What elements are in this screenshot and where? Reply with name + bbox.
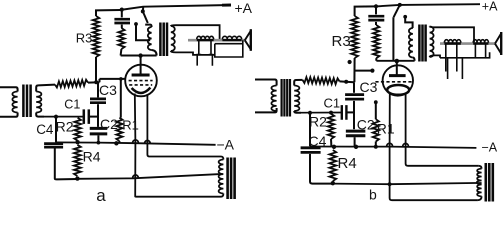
wire switch to primary top	[145, 25, 151, 27]
wire hop a right-leg over bus	[144, 140, 150, 143]
switch pivot	[141, 9, 145, 13]
speaker coil 1 legs b	[446, 44, 463, 79]
wire plate node	[121, 55, 157, 57]
output transformer T2a primary bottom lead (wire)	[152, 50, 157, 56]
label R2	[56, 119, 74, 135]
svg-text:−A: −A	[482, 141, 498, 155]
wire top rail (+A rail) b	[376, 4, 480, 6]
terminal -A label b	[482, 141, 498, 155]
wire bus to -A b	[390, 147, 477, 148]
wire contact down	[136, 24, 150, 40]
wire R1 lead b	[375, 102, 377, 119]
triode V1b plate	[389, 74, 406, 77]
capacitor C4	[44, 144, 63, 148]
wire hop a left-leg over heater ground	[133, 175, 139, 178]
label C2	[100, 116, 118, 132]
node heater ground junction b	[388, 182, 392, 186]
wire R1 bottom b	[375, 142, 377, 147]
switch blade b	[394, 5, 400, 17]
output transformer T2b core	[419, 25, 425, 62]
input transformer T1b primary lead bottom (wire)	[255, 108, 277, 112]
label R1	[122, 118, 139, 133]
filament transformer T3a top corner (wire)	[221, 157, 223, 160]
speaker cone mouth	[250, 29, 252, 50]
switch contact b	[403, 15, 407, 19]
wire hop b right-leg over bus	[403, 143, 409, 146]
switch pivot b	[398, 3, 402, 7]
wire C4 bottom lead	[55, 148, 78, 179]
label C4 (b)	[309, 133, 327, 149]
svg-text:R1: R1	[377, 121, 395, 137]
speaker coil 2	[222, 36, 241, 40]
node C4 branch	[54, 115, 58, 119]
speaker coil 2 legs b	[475, 44, 485, 58]
label C1	[64, 97, 80, 111]
node R4 bottom	[75, 176, 79, 180]
wire hop b left-leg over bus	[387, 143, 393, 146]
label R3	[76, 31, 93, 46]
wire chain C3 to C1 b	[353, 101, 355, 129]
label C1 (b)	[324, 96, 341, 111]
filament transformer T3b bottom corner (wire)	[478, 196, 482, 200]
triode V1a envelope	[125, 65, 157, 97]
speaker armature bar	[188, 39, 245, 42]
svg-text:C3: C3	[99, 82, 117, 98]
svg-text:a: a	[96, 186, 106, 204]
output transformer T2b secondary winding	[430, 26, 434, 57]
output transformer T2b secondary top lead (wire)	[430, 27, 474, 44]
input transformer T1a secondary top lead (wire)	[36, 85, 55, 92]
wire +A rail end dash	[222, 4, 231, 7]
capacitor C1	[84, 109, 89, 124]
triode V1a plate	[132, 74, 150, 77]
node grid stub end b	[370, 69, 374, 73]
wire grid to R1	[120, 79, 122, 118]
svg-text:R4: R4	[83, 148, 101, 164]
label a (figure letter)	[96, 186, 106, 205]
label R4	[83, 148, 101, 164]
switch blade	[143, 11, 148, 23]
wire RC branch top b	[375, 6, 377, 14]
triode V1a filament leg right (wire)	[147, 94, 221, 157]
node R1 top b	[374, 100, 378, 104]
output transformer T2a secondary bottom lead (wire)	[171, 51, 215, 55]
resistor R3 (b)	[351, 16, 358, 58]
terminal -A label	[217, 137, 235, 153]
speaker coil 1	[197, 36, 214, 40]
speaker cone mouth b	[500, 32, 502, 55]
node R1 bottom b	[374, 145, 378, 149]
label C2 (b)	[357, 117, 375, 133]
node C2 bottom	[97, 141, 101, 145]
output transformer T2a primary winding	[148, 27, 152, 50]
svg-text:R1: R1	[122, 118, 139, 133]
svg-text:C4: C4	[36, 122, 54, 137]
resistor R4 (b)	[329, 150, 336, 181]
wire hop a left-leg over bus	[133, 140, 139, 143]
capacitor C3 (b)	[345, 95, 364, 100]
speaker cone	[245, 29, 251, 50]
svg-text:−A: −A	[217, 137, 235, 153]
filament transformer T3a winding	[219, 160, 224, 194]
wire secondary bottom to C1	[44, 116, 83, 118]
wire ground bus b	[310, 146, 390, 148]
wire secondary bottom to C1 b	[301, 112, 342, 114]
wire RC bottom b	[375, 58, 377, 61]
filament transformer T3b core	[486, 163, 493, 202]
wire R3 bottom b	[353, 58, 355, 82]
svg-text:+A: +A	[482, 0, 498, 14]
svg-text:C2: C2	[100, 116, 118, 132]
input transformer T1b secondary top lead (wire)	[294, 80, 302, 86]
node plate junction	[138, 53, 142, 57]
label R1 (b)	[377, 121, 395, 137]
resistor R1 (b)	[373, 119, 379, 141]
node R2 bottom	[75, 140, 79, 144]
node C2 bottom b	[354, 145, 358, 149]
svg-text:C1: C1	[64, 97, 80, 111]
wire switch blade drop b	[392, 17, 394, 61]
input transformer T1b secondary winding	[294, 86, 299, 112]
input transformer T1b primary lead top (wire)	[255, 80, 277, 86]
node R2 bottom b	[332, 145, 336, 149]
filament transformer T3a bottom corner (wire)	[221, 194, 223, 197]
triode V1a cathode	[132, 88, 151, 93]
svg-text:R2: R2	[56, 119, 74, 135]
speaker armature bar b	[440, 42, 495, 45]
node grid/R1 tee	[119, 77, 123, 81]
triode V1b grid (dashed)	[375, 81, 413, 83]
capacitor C2 (b)	[346, 131, 366, 136]
output transformer T2b primary bottom lead (wire)	[413, 58, 415, 61]
node RC branch b	[374, 4, 378, 8]
input transformer T1a secondary winding	[36, 92, 41, 113]
speaker pole box	[215, 40, 243, 57]
resistor R3	[93, 16, 100, 57]
wire C4 bottom lead b	[310, 154, 332, 184]
wire chain C2 to bus b	[354, 137, 356, 146]
wire plate lead	[140, 56, 142, 74]
svg-text:R3: R3	[332, 33, 351, 50]
resistor R4	[74, 145, 81, 176]
capacitor C4 (b)	[301, 148, 321, 153]
filament transformer T3b winding	[477, 169, 482, 197]
node R1 bottom	[114, 141, 118, 145]
node C4 branch b	[308, 111, 312, 115]
output transformer T2b primary winding	[409, 28, 413, 58]
grid resistor (horizontal zigzag)	[55, 80, 88, 88]
resistor R2	[74, 118, 81, 141]
wire grid chain top	[97, 82, 99, 97]
capacitor C2	[90, 128, 108, 134]
output transformer T2a core	[160, 23, 167, 57]
node R3 bottom b	[348, 60, 352, 64]
wire grid stub b	[354, 70, 372, 72]
svg-text:+A: +A	[235, 0, 253, 16]
svg-text:R2: R2	[309, 113, 327, 129]
output transformer T2b secondary bottom lead (wire)	[430, 55, 440, 57]
wire heater ground (center tap)	[77, 174, 222, 179]
label C3	[99, 82, 117, 98]
filament transformer T3b top corner (wire)	[479, 166, 482, 169]
resistor (plate RC)	[118, 28, 124, 49]
input transformer T1a primary lead bottom (wire)	[0, 113, 18, 117]
wire top rail corner b	[355, 6, 376, 16]
triode V1a filament leg left (wire)	[135, 94, 221, 197]
capacitor C1 (b)	[342, 105, 347, 120]
wire switch pivot stub	[142, 7, 144, 10]
speaker coil 2 b	[473, 40, 488, 44]
label b (figure letter)	[369, 187, 377, 203]
wire R2 bottom b	[330, 139, 332, 147]
svg-text:b: b	[369, 187, 377, 203]
input transformer T1b secondary bottom lead (wire)	[294, 111, 301, 113]
svg-text:C3: C3	[360, 79, 378, 95]
label C4	[36, 122, 54, 137]
terminal +A label	[235, 0, 253, 16]
wire heater ground b	[332, 183, 482, 184]
wire C1 to chain b	[346, 111, 354, 113]
node plate junction b	[395, 59, 400, 64]
grid resistor b (horizontal zigzag)	[303, 77, 340, 84]
wire plate lead b	[396, 61, 398, 75]
triode V1b envelope	[383, 65, 413, 95]
output transformer T2a secondary top lead (wire)	[171, 25, 220, 40]
wire grid to R3 junction	[88, 79, 126, 83]
label R2 (b)	[309, 113, 327, 129]
input transformer T1a primary winding	[12, 92, 17, 113]
node grid junction b	[344, 80, 348, 84]
wire contact staircase b	[405, 17, 412, 28]
wire chain C3 to C1 junction	[97, 104, 99, 127]
wire chain C2 to bus	[97, 135, 99, 142]
filament transformer T3a core	[228, 158, 235, 200]
label C3 (b)	[360, 79, 378, 95]
resistor R2 (b)	[328, 114, 334, 139]
triode V1b filament leg right (wire)	[406, 94, 479, 165]
wire C4 lead b	[309, 113, 311, 147]
wire grid chain top b	[353, 82, 355, 93]
wire top rail left corner	[96, 10, 120, 16]
wire plate node b	[376, 60, 414, 62]
input transformer T1b primary winding	[271, 86, 276, 112]
wire C1 to chain	[89, 116, 98, 118]
wire R3 bottom to grid wire	[95, 57, 97, 82]
triode V1b cathode	[387, 85, 409, 95]
terminal +A label b	[482, 0, 498, 14]
wire cap to resistor	[121, 25, 123, 28]
input transformer T1a core	[23, 85, 30, 118]
capacitor (plate RC) b	[368, 16, 384, 20]
wire grid resistor to chain b	[340, 80, 355, 83]
resistor R1	[116, 118, 122, 141]
node R3/grid junction	[94, 80, 98, 84]
wire ground bus to -A	[56, 142, 216, 144]
speaker coil 1 b	[444, 40, 460, 44]
triode V1b filament leg left (wire)	[390, 94, 478, 200]
capacitor (plate RC)	[114, 19, 130, 23]
wire C4 branch down	[55, 117, 57, 143]
label R3 (b)	[332, 33, 351, 50]
svg-text:C1: C1	[324, 96, 341, 111]
wire RC branch top	[121, 10, 123, 18]
wire R1 bottom	[118, 141, 120, 143]
speaker cone b	[495, 32, 501, 55]
svg-text:R4: R4	[338, 155, 357, 172]
wire RC bottom elbow	[120, 49, 123, 56]
switch lower contact	[134, 22, 138, 26]
wire cap to resistor b	[375, 22, 377, 25]
resistor (plate RC) b	[373, 25, 379, 58]
svg-text:C2: C2	[357, 117, 375, 133]
input transformer T1a secondary bottom lead (wire)	[36, 113, 44, 117]
triode V1a grid (dashed row 2)	[129, 84, 152, 86]
input transformer T1a primary lead top (wire)	[0, 87, 18, 91]
node R2 top b	[329, 111, 333, 115]
speaker coil 1 legs	[196, 40, 213, 66]
svg-text:R3: R3	[76, 31, 93, 46]
output transformer T2a secondary winding	[171, 26, 175, 51]
speaker bottom wire b	[440, 52, 490, 58]
wire top rail (+A rail)	[120, 5, 231, 10]
capacitor C3	[90, 99, 106, 103]
input transformer T1b core	[282, 79, 290, 117]
node top rail / RC branch	[120, 8, 124, 12]
label R4 (b)	[338, 155, 357, 172]
triode V1a grid (dashed row 1)	[129, 80, 153, 82]
node R4 bottom b	[331, 181, 335, 185]
